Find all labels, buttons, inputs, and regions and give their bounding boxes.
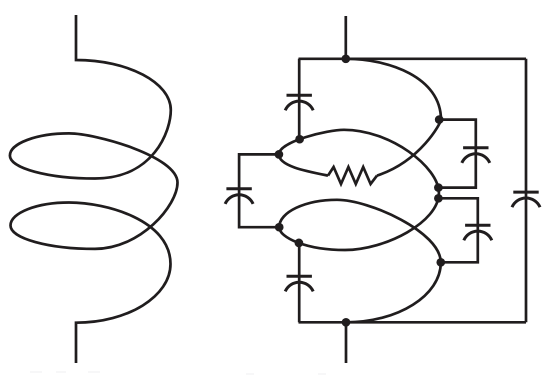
wire: top rail [299,57,527,60]
capacitor C5 curved plate [464,231,492,240]
capacitor C6 curved plate [512,198,540,207]
wire: right branch down through capacitor C6 [525,59,528,323]
wire: top terminal lead [344,16,347,59]
capacitor C5 plate (between turns, right lower) [465,224,490,227]
wire: bottom terminal lead [345,322,348,363]
node G (inter-turn apex, upper) [434,183,443,192]
capacitor C4 curved plate [462,154,490,163]
inductor L1 (physical coil, left) [10,15,178,363]
wire: node F right and down through capacitor C4 to node G [438,120,475,188]
capacitor C2 plate (between turns, left) [226,187,251,190]
inductor L2 turns (equivalent coil, lower segment) [279,130,441,322]
capacitor C1 curved plate [285,101,313,110]
node C (turn 1 left tip) [275,150,284,159]
node D (turn 2 left tip) [275,223,284,232]
node B (turn 1 upper-left) [295,135,304,144]
node F (turn 1 right apex) [435,115,444,124]
capacitor C2 curved plate [225,195,253,204]
capacitor C1 plate (top rail to turn 1) [287,94,312,97]
capacitor C3 curved plate [285,282,313,291]
wire: node H right and down through capacitor C5 to node I [438,198,477,262]
capacitor C4 plate (between turns, right upper) [463,146,488,149]
wire: left drop through capacitor C1 to node B [298,59,301,139]
node H (inter-turn apex, lower) [434,194,443,203]
wire: node E down through capacitor C3 to bottom rail [298,243,301,322]
wire: turn-1 left tip through capacitor C2 to turn-2 left tip [239,154,279,227]
node A (top junction) [341,54,350,63]
resistor R1 (series loss resistance) [328,167,377,184]
faint cropped caption marks [30,371,326,375]
node I (turn 2 right apex) [436,258,445,267]
wire: bottom rail [299,321,527,324]
inductor L2 turns (equivalent coil, upper segment) [346,59,441,176]
capacitor C6 plate (overall self-capacitance) [513,191,538,194]
capacitor C3 plate (turn 2 to bottom rail) [287,275,312,278]
node E (turn 2 lower-left) [295,239,304,248]
node J (bottom junction) [342,318,351,327]
